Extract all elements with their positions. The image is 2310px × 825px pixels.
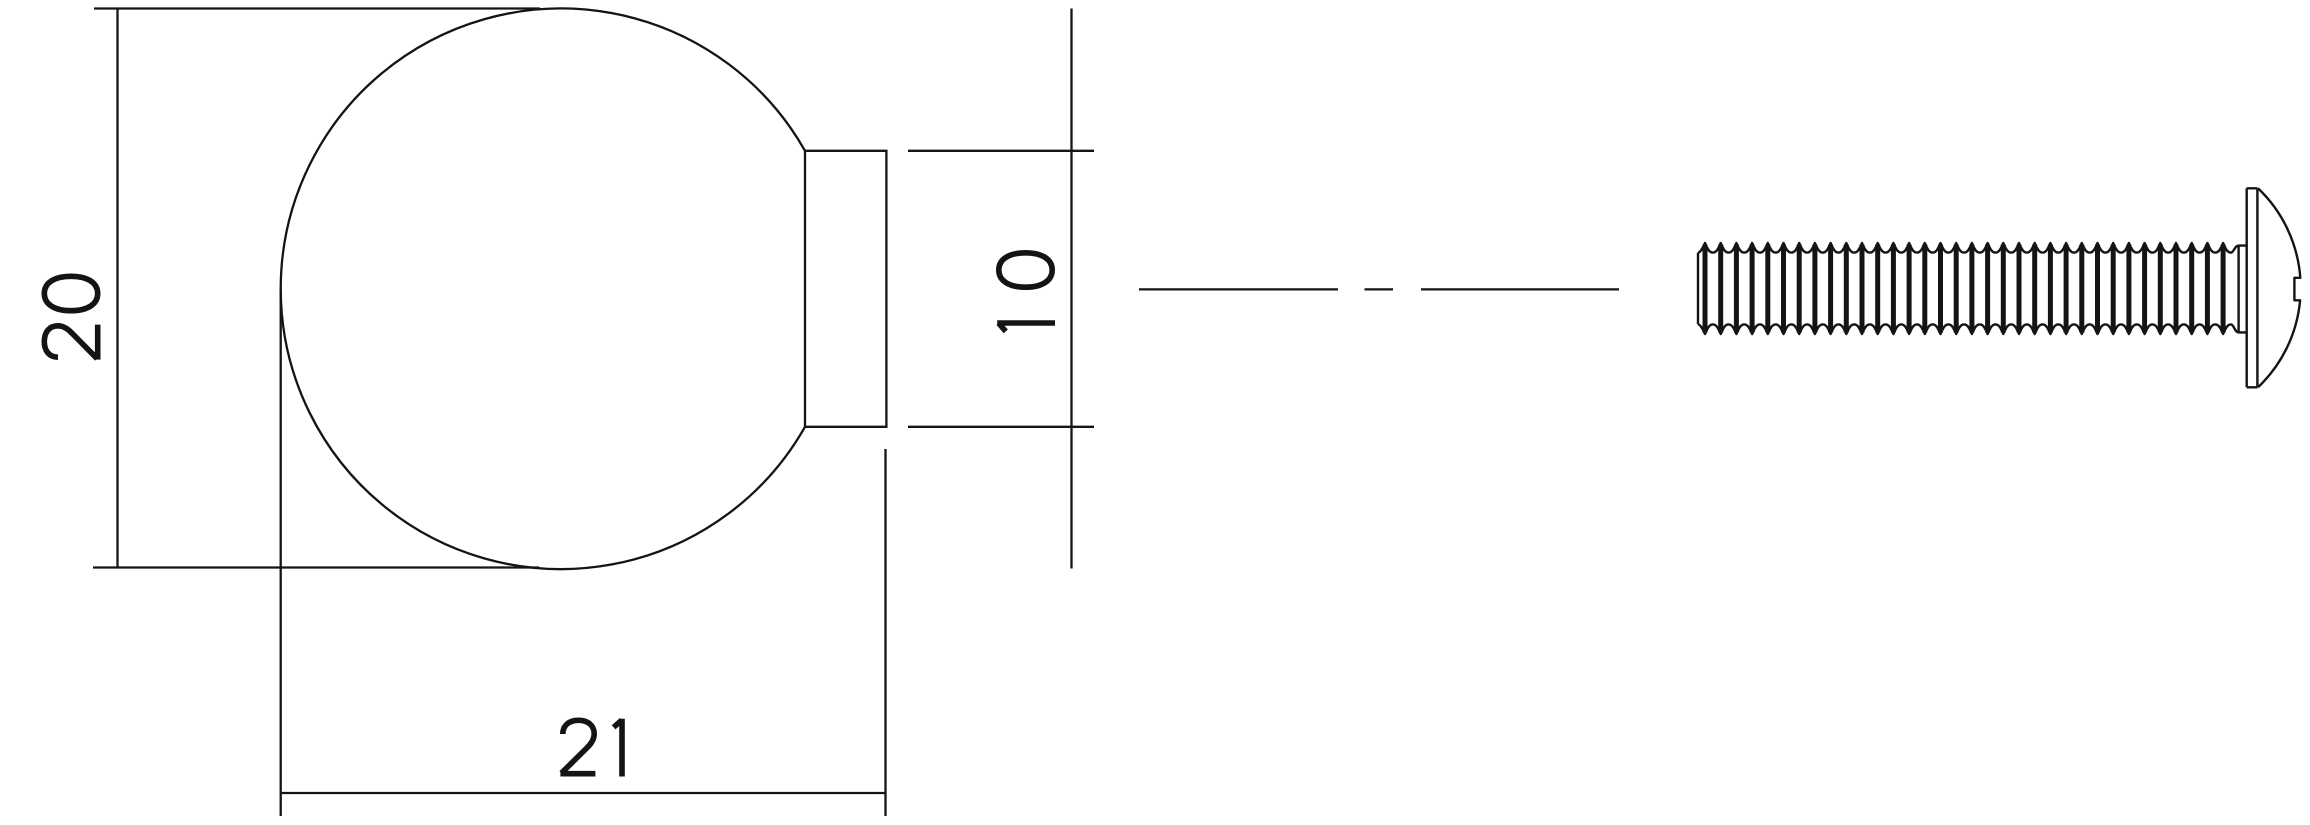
extension line bottom (10) [908,426,1094,428]
center line dash 2 (short) [1365,288,1394,290]
screw head flange face [2247,188,2258,387]
extension line top (20) [94,7,540,9]
dimension line 21 (horizontal, bottom) [282,792,886,794]
screw thread crests (bars) [1705,245,2223,333]
knob ball (circle arc) [281,9,805,570]
screw thread top profile [1698,243,2247,253]
extension line right (21) [884,449,886,816]
center line dash 3 [1421,288,1619,290]
dimension line 10 (vertical) [1070,9,1072,569]
label 10 (rotated) [997,253,1055,332]
thread runout line [2237,246,2239,333]
label 21 [560,719,622,777]
center line dash 1 [1139,288,1338,290]
knob neck rectangle [805,151,886,427]
extension line top (10) [908,150,1094,152]
extension line bottom (20) [93,566,539,568]
label 20 (rotated) [44,276,97,359]
screw left end edge [1697,253,1699,325]
dimension line 20 (vertical, left) [116,9,118,568]
extension line left (21) [280,289,282,816]
screw thread bottom profile [1698,324,2247,334]
screw head dome with slot notch [2258,188,2300,387]
